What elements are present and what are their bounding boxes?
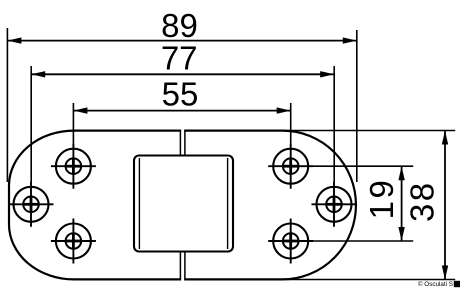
- svg-text:19: 19: [363, 178, 400, 220]
- svg-text:77: 77: [161, 39, 198, 76]
- svg-text:55: 55: [162, 76, 199, 113]
- svg-text:© Osculati S: © Osculati S: [418, 280, 453, 288]
- svg-text:38: 38: [404, 180, 441, 222]
